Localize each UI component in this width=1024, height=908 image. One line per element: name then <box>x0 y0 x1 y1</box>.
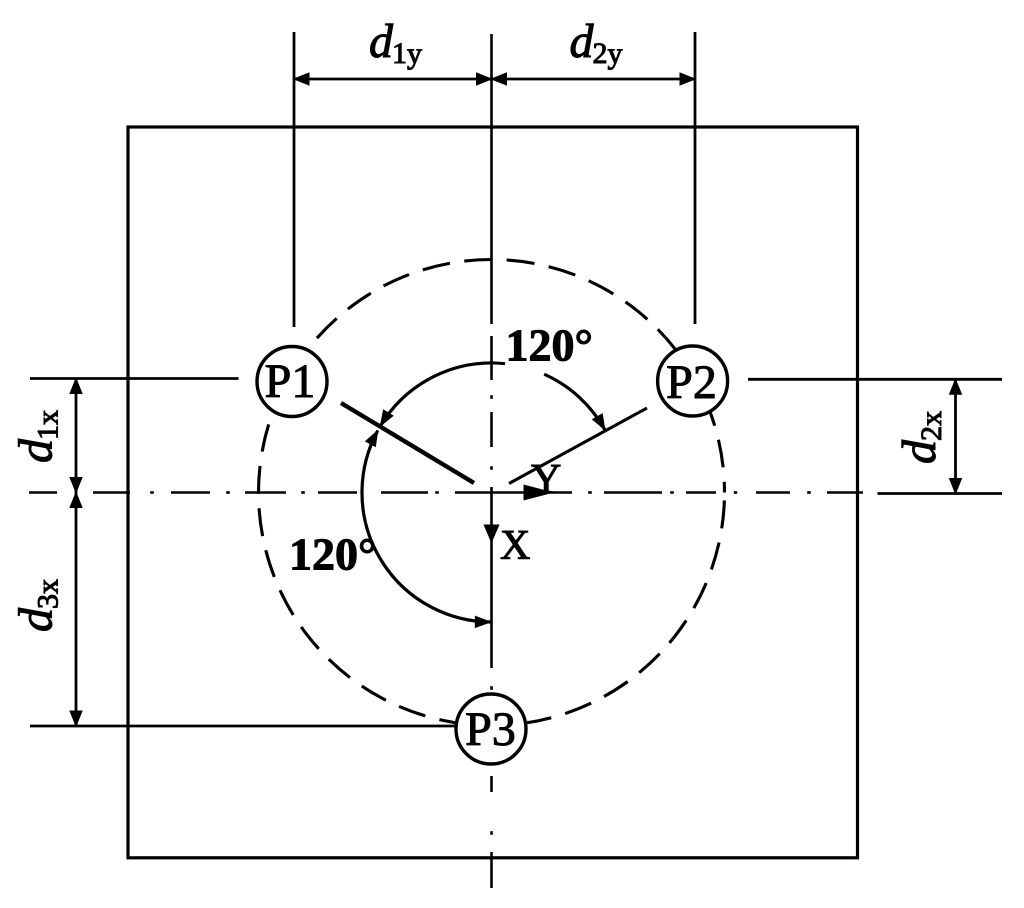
svg-text:d3x: d3x <box>10 579 65 632</box>
svg-text:P2: P2 <box>666 356 717 409</box>
svg-text:d2x: d2x <box>893 411 948 464</box>
svg-text:P1: P1 <box>265 355 316 408</box>
svg-text:Y: Y <box>531 457 561 503</box>
svg-text:120°: 120° <box>506 320 593 371</box>
svg-text:d1x: d1x <box>10 410 65 463</box>
svg-text:d2y: d2y <box>570 15 623 70</box>
svg-text:P3: P3 <box>465 703 516 756</box>
svg-text:X: X <box>500 523 530 569</box>
svg-text:120°: 120° <box>289 529 376 580</box>
svg-text:d1y: d1y <box>369 15 422 70</box>
